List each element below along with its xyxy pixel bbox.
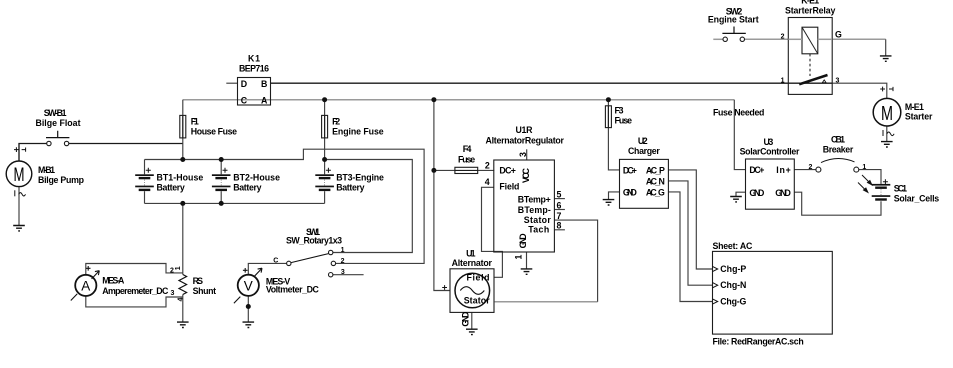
svg-text:F2: F2 <box>332 116 340 126</box>
svg-text:D: D <box>241 79 247 89</box>
svg-text:VCC: VCC <box>521 167 531 183</box>
svg-text:2: 2 <box>341 258 345 265</box>
svg-text:3: 3 <box>835 77 839 84</box>
svg-text:AlternatorRegulator: AlternatorRegulator <box>486 135 565 145</box>
svg-text:SW_Rotary1x3: SW_Rotary1x3 <box>286 236 342 246</box>
svg-text:SC1: SC1 <box>894 183 907 193</box>
svg-text:Chg-P: Chg-P <box>720 264 746 274</box>
svg-text:3: 3 <box>341 269 345 276</box>
svg-text:BT2-House: BT2-House <box>233 172 280 182</box>
svg-text:2: 2 <box>781 34 785 41</box>
svg-text:DC+: DC+ <box>749 165 764 175</box>
svg-text:4: 4 <box>485 177 490 187</box>
svg-text:BT3-Engine: BT3-Engine <box>336 172 384 182</box>
svg-text:5: 5 <box>557 190 562 200</box>
svg-text:Alternator: Alternator <box>452 258 493 268</box>
svg-text:Breaker: Breaker <box>823 144 854 154</box>
svg-text:A: A <box>81 279 90 294</box>
svg-text:Shunt: Shunt <box>193 286 216 296</box>
svg-text:Field: Field <box>467 272 490 282</box>
svg-text:Engine Start: Engine Start <box>708 14 759 24</box>
svg-text:DC+: DC+ <box>623 165 637 175</box>
svg-text:GND: GND <box>518 233 528 248</box>
svg-text:3: 3 <box>171 290 175 297</box>
svg-text:K1: K1 <box>248 54 260 64</box>
svg-text:M-B1: M-B1 <box>38 165 55 175</box>
svg-text:CB1: CB1 <box>831 135 845 145</box>
svg-text:SW-B1: SW-B1 <box>44 108 67 118</box>
svg-text:F1: F1 <box>191 116 199 126</box>
svg-text:Field: Field <box>499 182 519 192</box>
svg-text:Sheet: AC: Sheet: AC <box>713 241 753 251</box>
svg-text:House Fuse: House Fuse <box>191 126 237 136</box>
svg-text:C: C <box>273 257 278 264</box>
svg-text:GND: GND <box>460 312 470 327</box>
svg-text:M: M <box>881 103 893 125</box>
svg-text:C: C <box>241 95 248 105</box>
svg-text:Starter: Starter <box>905 112 933 122</box>
svg-text:AC_N: AC_N <box>646 176 665 186</box>
svg-text:Solar_Cells: Solar_Cells <box>894 194 939 204</box>
svg-text:U1R: U1R <box>516 125 534 135</box>
svg-text:BEP716: BEP716 <box>239 64 269 74</box>
svg-text:BT1-House: BT1-House <box>157 172 204 182</box>
svg-text:U1: U1 <box>466 249 475 259</box>
svg-text:File: RedRangerAC.sch: File: RedRangerAC.sch <box>713 336 804 346</box>
svg-text:Stator: Stator <box>464 296 491 306</box>
svg-text:A: A <box>261 95 268 105</box>
svg-text:2: 2 <box>808 164 812 171</box>
svg-text:Bilge Pump: Bilge Pump <box>38 175 85 185</box>
svg-text:2: 2 <box>170 267 174 274</box>
svg-text:DC+: DC+ <box>499 166 516 176</box>
svg-text:GND: GND <box>623 187 637 197</box>
svg-text:G: G <box>835 29 842 39</box>
svg-text:1: 1 <box>862 164 866 171</box>
svg-text:F3: F3 <box>615 105 624 115</box>
svg-text:StarterRelay: StarterRelay <box>785 5 835 15</box>
svg-text:U3: U3 <box>764 137 774 147</box>
svg-text:7: 7 <box>557 211 562 221</box>
svg-text:BTemp+: BTemp+ <box>518 195 551 205</box>
svg-text:Voltmeter_DC: Voltmeter_DC <box>266 284 320 294</box>
svg-text:Engine Fuse: Engine Fuse <box>332 126 384 136</box>
svg-text:RS: RS <box>193 276 204 286</box>
svg-text:1: 1 <box>341 247 345 254</box>
svg-text:V: V <box>244 279 253 294</box>
svg-text:1: 1 <box>514 255 524 260</box>
svg-text:B: B <box>261 79 267 89</box>
svg-text:GND: GND <box>749 188 764 198</box>
svg-text:1: 1 <box>175 266 182 270</box>
svg-text:6: 6 <box>557 200 562 210</box>
svg-text:8: 8 <box>557 221 562 231</box>
svg-text:MES-A: MES-A <box>102 276 125 286</box>
svg-text:AC_G: AC_G <box>646 187 665 197</box>
svg-text:3: 3 <box>518 152 528 157</box>
svg-text:Fuse: Fuse <box>615 115 633 125</box>
svg-text:Battery: Battery <box>233 182 261 192</box>
svg-text:1: 1 <box>781 77 785 84</box>
svg-text:Battery: Battery <box>157 182 185 192</box>
svg-text:Charger: Charger <box>628 146 660 156</box>
svg-text:SolarController: SolarController <box>740 147 800 157</box>
svg-text:GND: GND <box>775 188 791 198</box>
svg-text:Fuse: Fuse <box>458 154 475 164</box>
svg-text:F4: F4 <box>463 144 472 154</box>
svg-text:M: M <box>14 165 25 186</box>
svg-text:Amperemeter_DC: Amperemeter_DC <box>102 286 169 296</box>
svg-text:Battery: Battery <box>336 182 364 192</box>
svg-text:M-E1: M-E1 <box>905 102 924 112</box>
svg-text:In+: In+ <box>776 165 791 175</box>
svg-text:AC_P: AC_P <box>646 165 665 175</box>
svg-text:Chg-N: Chg-N <box>720 280 746 290</box>
svg-text:Fuse Needed: Fuse Needed <box>713 108 764 118</box>
svg-text:U2: U2 <box>638 136 648 146</box>
svg-text:Tach: Tach <box>528 224 549 234</box>
svg-text:2: 2 <box>485 160 490 170</box>
svg-text:BTemp-: BTemp- <box>518 205 551 215</box>
svg-text:Bilge Float: Bilge Float <box>36 118 81 128</box>
svg-text:Chg-G: Chg-G <box>720 296 746 306</box>
svg-text:4: 4 <box>178 298 185 302</box>
